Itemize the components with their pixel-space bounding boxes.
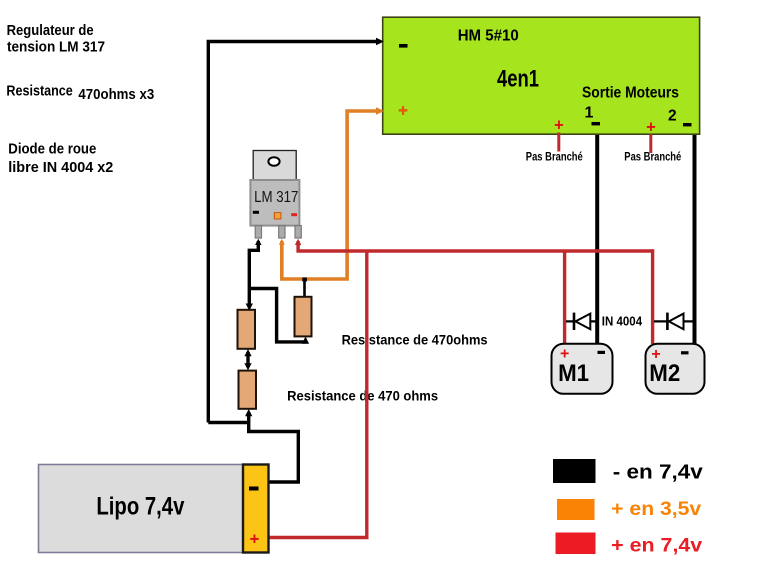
svg-text:Pas Branché: Pas Branché <box>624 151 681 163</box>
svg-text:+ en 7,4v: + en 7,4v <box>611 535 702 557</box>
svg-text:- en 7,4v: - en 7,4v <box>613 461 704 484</box>
terminal - motor output 1 <box>592 122 601 125</box>
svg-text:IN 4004: IN 4004 <box>602 315 642 329</box>
U1 mounting hole <box>268 157 279 166</box>
resistor R3 470 ohms <box>295 297 312 337</box>
svg-text:LM 317: LM 317 <box>254 189 298 206</box>
svg-text:Diode de roue: Diode de roue <box>8 141 96 158</box>
svg-text:+: + <box>250 530 260 549</box>
svg-text:470ohms x3: 470ohms x3 <box>78 86 154 103</box>
wire black from 4en1 output 2 minus to motor M2 <box>693 135 697 344</box>
U1 pin 1 <box>255 226 261 238</box>
motor M2 <box>646 344 705 394</box>
svg-text:Regulateur de: Regulateur de <box>7 22 94 39</box>
M2 terminal - <box>681 351 689 354</box>
wire orange from U1 pin2 to 4en1 plus input <box>279 107 384 279</box>
resistor R2 470 ohms <box>239 371 257 409</box>
svg-text:+: + <box>646 119 656 137</box>
module U2 4en1 HM 5#10 (green board) <box>383 17 700 134</box>
svg-text:HM 5#10: HM 5#10 <box>458 28 519 45</box>
svg-text:Sortie Moteurs: Sortie Moteurs <box>582 85 679 102</box>
wire red stub from motor1 + (not connected) <box>557 133 560 152</box>
wire red stub from motor2 + (not connected) <box>649 134 652 153</box>
svg-text:+: + <box>398 103 407 120</box>
U1 pin marker adj (orange) <box>274 213 281 219</box>
U1 pin 3 <box>295 226 301 238</box>
label: Regulateur de tension LM 317 <box>7 22 105 56</box>
svg-text:Resistance: Resistance <box>6 83 72 100</box>
wire red branch down to battery plus <box>269 251 367 538</box>
U1 body <box>250 180 299 226</box>
label: Resistance 470ohms x3 <box>6 83 154 104</box>
U1 tab <box>253 151 296 181</box>
svg-text:libre IN 4004 x2: libre IN 4004 x2 <box>8 159 113 176</box>
svg-text:+: + <box>554 117 564 135</box>
battery terminal strip <box>243 465 269 553</box>
battery terminal - <box>249 487 259 491</box>
wire black between R1 and R2 <box>244 349 251 370</box>
legend: black wire swatch <box>553 459 596 483</box>
svg-text:+ en 3,5v: + en 3,5v <box>611 499 701 520</box>
diode D1 IN 4004 (freewheel M1) <box>566 313 598 330</box>
wire black stub from orange net to resistor R3 top <box>302 278 307 297</box>
legend: red wire swatch <box>556 533 596 555</box>
svg-text:M2: M2 <box>649 360 680 387</box>
terminal - (battery input minus) on 4en1 <box>399 44 408 48</box>
wire red from U1 pin3 to motors and battery plus <box>295 239 653 251</box>
svg-text:4en1: 4en1 <box>497 66 539 93</box>
label: Diode de roue libre IN 4004 x2 <box>8 141 113 177</box>
svg-text:Resistance de 470ohms: Resistance de 470ohms <box>342 332 488 348</box>
wire black from battery minus node to 4en1 minus input <box>208 38 384 423</box>
battery body <box>39 465 244 553</box>
svg-text:1: 1 <box>585 105 594 122</box>
wire red down to motor M2 plus <box>651 249 654 344</box>
svg-text:Lipo 7,4v: Lipo 7,4v <box>96 493 184 521</box>
svg-text:M1: M1 <box>558 360 589 387</box>
svg-text:2: 2 <box>668 108 677 125</box>
wire black from R2 bottom to battery minus loop <box>245 409 298 482</box>
battery BT1 Lipo 7,4v <box>39 465 269 553</box>
legend: orange wire swatch <box>557 499 595 520</box>
M1 terminal - <box>598 351 606 354</box>
diode D2 IN 4004 (freewheel M2) <box>654 313 695 330</box>
U1 pin 2 <box>279 226 285 238</box>
U1 pin marker out (red) <box>291 213 297 216</box>
svg-text:+: + <box>560 346 569 363</box>
svg-text:Pas Branché: Pas Branché <box>526 151 583 163</box>
wire black from 4en1 output 1 minus to motor M1 <box>595 135 599 344</box>
wire black from U1 pin1 to resistor chain <box>246 239 309 344</box>
resistor R1 470 ohms <box>238 310 256 349</box>
U1 pin marker minus <box>253 211 259 214</box>
regulator U1 LM 317 (TO-220 package) <box>250 151 301 239</box>
svg-text:Resistance de 470 ohms: Resistance de 470 ohms <box>287 388 438 404</box>
wire red branch down to motor M1 plus <box>563 251 566 344</box>
motor M1 <box>552 344 613 394</box>
svg-text:+: + <box>651 346 660 363</box>
terminal - motor output 2 <box>683 123 692 126</box>
svg-text:tension LM 317: tension LM 317 <box>7 39 105 56</box>
